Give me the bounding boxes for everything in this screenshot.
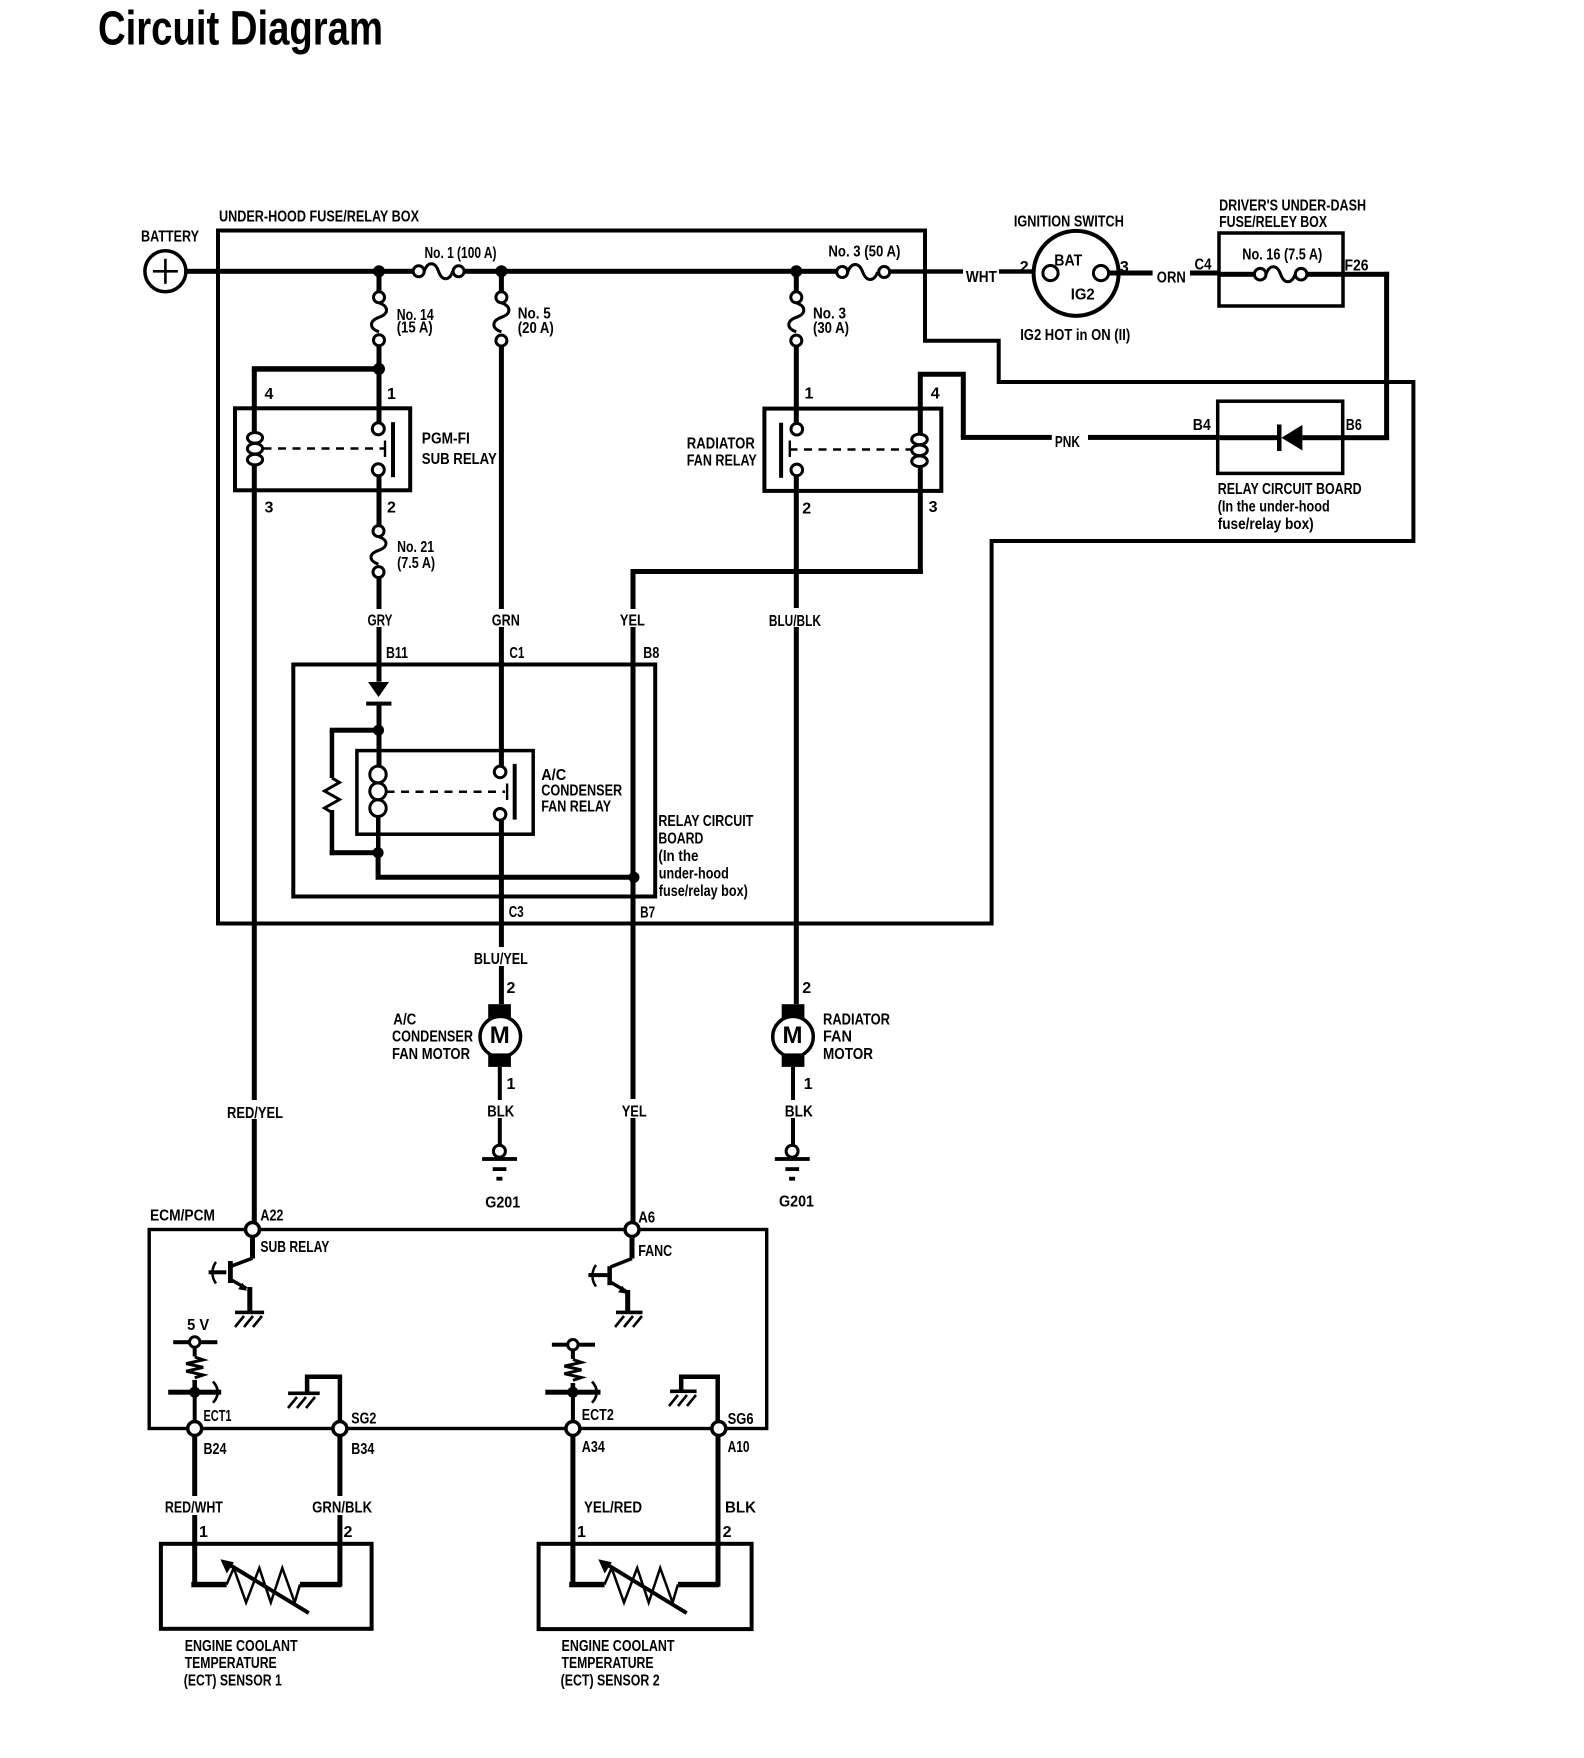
node junction dot bus/No.14 <box>373 265 385 277</box>
thermistor RT1 <box>191 1559 341 1613</box>
relay K1 contact blade <box>391 422 395 477</box>
wire RED/YEL PGM-FI pin 3 to A22 <box>252 490 257 1222</box>
ignition switch S1 <box>1034 231 1119 316</box>
svg-text:DRIVER'S UNDER-DASH: DRIVER'S UNDER-DASH <box>1219 198 1366 215</box>
wire fuse 16 to F26 <box>1307 272 1343 277</box>
wire ORN to C4 <box>1190 271 1220 276</box>
svg-text:2: 2 <box>802 500 811 517</box>
fuse No. 21 (7.5 A) <box>371 526 435 578</box>
svg-text:1: 1 <box>387 386 396 403</box>
svg-text:M: M <box>490 1022 510 1049</box>
relay K1 contact terminals <box>372 423 384 476</box>
svg-text:A/C: A/C <box>541 767 566 784</box>
svg-text:YEL: YEL <box>620 613 645 630</box>
svg-text:GRN/BLK: GRN/BLK <box>312 1500 373 1517</box>
wire label YEL lower <box>615 1099 649 1120</box>
battery B1 <box>141 229 200 292</box>
node junction dot bus/No.5 <box>495 265 507 277</box>
node junction dot pin1/pin4 <box>373 363 385 375</box>
under-hood fuse/relay box outline <box>218 231 1413 924</box>
fuse No. 16 (7.5 A) <box>1242 247 1322 282</box>
svg-text:G201: G201 <box>485 1194 520 1211</box>
wire B24 to ECT sensor 1 pin 1 <box>192 1436 197 1587</box>
motor M2 radiator fan motor <box>773 1004 814 1067</box>
svg-text:A10: A10 <box>728 1439 750 1456</box>
svg-text:YEL: YEL <box>622 1103 647 1120</box>
svg-text:ECT2: ECT2 <box>582 1407 614 1424</box>
svg-text:UNDER-HOOD FUSE/RELAY BOX: UNDER-HOOD FUSE/RELAY BOX <box>219 209 420 226</box>
ECT sensor 2 box <box>539 1544 752 1629</box>
svg-text:B4: B4 <box>1193 417 1211 434</box>
ECT1 comparator input bar <box>168 1382 221 1422</box>
svg-text:IG2 HOT in ON (II): IG2 HOT in ON (II) <box>1020 327 1130 344</box>
wire B8/YEL column through board <box>631 682 636 875</box>
svg-text:WHT: WHT <box>966 269 997 286</box>
node 5V supply ECT1 <box>173 1337 217 1347</box>
svg-text:B34: B34 <box>351 1441 374 1458</box>
svg-text:PGM-FI: PGM-FI <box>422 431 470 448</box>
ECT2 comparator input bar <box>545 1382 600 1422</box>
svg-text:G201: G201 <box>779 1194 814 1211</box>
svg-text:FAN RELAY: FAN RELAY <box>541 799 612 816</box>
wire WHT to ignition pin 2 <box>999 269 1043 273</box>
svg-text:A34: A34 <box>582 1439 605 1456</box>
diode D2 <box>1277 425 1343 452</box>
connector B24 <box>188 1422 202 1436</box>
resistor R3 pull-up ECT2 <box>564 1351 581 1391</box>
node 5V supply ECT2 <box>552 1340 595 1350</box>
svg-text:BLK: BLK <box>487 1103 515 1120</box>
relay K2 actuator dashed line <box>790 448 912 451</box>
svg-text:RED/WHT: RED/WHT <box>165 1500 223 1517</box>
node junction dot diode/resistor <box>373 725 384 736</box>
svg-text:2: 2 <box>507 980 516 997</box>
wire label BLK sensor 2 <box>721 1496 758 1517</box>
wire pin 1 drop PGM-FI contact <box>377 371 382 423</box>
svg-text:SUB RELAY: SUB RELAY <box>260 1239 330 1256</box>
wire battery bus segment 1 <box>186 269 413 274</box>
wire pin 4 drop PGM-FI coil <box>252 369 257 410</box>
wire YEL column down to board <box>631 572 636 683</box>
thermistor RT2 <box>569 1559 719 1613</box>
svg-text:ENGINE COOLANT: ENGINE COOLANT <box>562 1638 675 1655</box>
svg-text:BATTERY: BATTERY <box>141 229 200 246</box>
svg-text:ORN: ORN <box>1157 270 1186 287</box>
wire thick horizontal to coil pin 4 <box>252 366 382 372</box>
wire label BLK A/C <box>483 1100 520 1120</box>
svg-text:2: 2 <box>723 1524 732 1541</box>
relay K1 label <box>422 431 498 469</box>
wire B6 link <box>1343 435 1389 440</box>
wire GRN column fuse5 to relay contact <box>499 346 504 766</box>
svg-text:2: 2 <box>344 1524 353 1541</box>
svg-text:GRY: GRY <box>368 613 393 630</box>
driver's under-dash fuse/relay box <box>1219 233 1343 306</box>
wire BLU/YEL C3 to A/C motor <box>499 820 504 1004</box>
relay circuit board box (diode) <box>1218 401 1343 473</box>
ground G201 A/C motor <box>482 1145 520 1211</box>
svg-text:ECT1: ECT1 <box>204 1408 232 1425</box>
svg-text:C1: C1 <box>509 645 524 662</box>
diode D1 on GRY line <box>366 682 391 706</box>
svg-text:CONDENSER: CONDENSER <box>541 783 622 800</box>
wire into fuse 16 <box>1219 272 1254 277</box>
svg-text:2: 2 <box>802 980 811 997</box>
relay K2 label <box>687 435 758 469</box>
svg-text:A/C: A/C <box>393 1012 416 1029</box>
node junction dot bus/No.3 <box>790 265 802 277</box>
wire battery bus segment 2 <box>464 269 837 274</box>
svg-text:YEL/RED: YEL/RED <box>584 1500 642 1517</box>
wire label GRY <box>362 609 396 630</box>
svg-text:RADIATOR: RADIATOR <box>687 435 755 452</box>
relay K3 A/C condenser fan relay box <box>357 751 533 835</box>
connector A22 <box>246 1223 260 1237</box>
svg-text:B11: B11 <box>386 645 408 662</box>
relay K2 coil <box>912 409 928 491</box>
wire label RED/WHT <box>161 1496 227 1517</box>
ECT sensor 1 box <box>161 1544 372 1629</box>
relay K1 contact tick <box>384 441 386 458</box>
wire YEL horizontal link <box>631 569 923 574</box>
relay K1 coil <box>247 408 262 490</box>
wire coil return down-right to B8 line <box>378 853 634 878</box>
connector A10 <box>712 1422 726 1436</box>
node junction dot coil return <box>373 847 384 858</box>
relay K2 radiator fan relay box <box>764 409 941 491</box>
svg-text:SG2: SG2 <box>351 1411 376 1428</box>
svg-text:BLU/BLK: BLU/BLK <box>769 613 822 630</box>
svg-text:No. 16 (7.5 A): No. 16 (7.5 A) <box>1242 247 1322 264</box>
node junction dot B8 line <box>629 872 640 883</box>
svg-text:C4: C4 <box>1195 257 1212 274</box>
svg-text:(30 A): (30 A) <box>813 320 849 337</box>
svg-text:FUSE/RELEY BOX: FUSE/RELEY BOX <box>1219 214 1328 231</box>
svg-text:A6: A6 <box>638 1209 655 1226</box>
relay circuit board (diode) caption <box>1218 481 1362 533</box>
svg-text:(In the under-hood: (In the under-hood <box>1218 499 1330 516</box>
svg-text:5 V: 5 V <box>187 1317 210 1334</box>
fuse No. 3 (50 A) <box>828 244 900 280</box>
under-dash box label <box>1219 198 1366 232</box>
wire PNK segment right <box>1088 435 1220 440</box>
wire pin 4 radiator coil up-right-down to PNK <box>920 374 963 437</box>
wire label GRN <box>486 609 520 630</box>
wire label BLU/YEL <box>469 947 531 968</box>
svg-text:B6: B6 <box>1346 417 1362 434</box>
wire B4 into diode <box>1220 435 1278 440</box>
svg-text:BLK: BLK <box>785 1103 814 1120</box>
svg-text:4: 4 <box>265 386 274 403</box>
transistor Q2 FANC driver <box>588 1237 634 1312</box>
svg-text:1: 1 <box>804 1076 813 1093</box>
wire BLU/BLK radiator pin 2 down to motor <box>794 476 799 1005</box>
svg-text:1: 1 <box>199 1524 208 1541</box>
svg-text:4: 4 <box>931 386 940 403</box>
ground SG2 symbol <box>288 1377 340 1422</box>
ground chassis Q2 <box>615 1311 643 1327</box>
svg-text:under-hood: under-hood <box>659 866 729 883</box>
fuse No. 14 (15 A) <box>372 292 435 346</box>
wire PNK segment left <box>961 435 1052 440</box>
fuse No. 5 (20 A) <box>494 292 554 346</box>
svg-text:(20 A): (20 A) <box>518 320 554 337</box>
svg-text:C3: C3 <box>509 904 524 921</box>
svg-text:RADIATOR: RADIATOR <box>823 1012 890 1029</box>
svg-text:ECM/PCM: ECM/PCM <box>150 1207 215 1224</box>
svg-text:RELAY CIRCUIT BOARD: RELAY CIRCUIT BOARD <box>1218 481 1362 498</box>
svg-text:FAN: FAN <box>823 1029 852 1046</box>
svg-text:BLK: BLK <box>725 1500 757 1517</box>
wire No.14 to junction <box>377 346 382 369</box>
transistor Q1 sub relay driver <box>209 1237 255 1312</box>
wire A34 to ECT sensor 2 pin 1 <box>570 1436 575 1587</box>
connector A34 <box>566 1422 580 1436</box>
wire diode to coil junction <box>377 703 382 766</box>
fuse No. 1 (100 A) <box>413 245 496 279</box>
svg-text:ENGINE COOLANT: ENGINE COOLANT <box>185 1638 298 1655</box>
svg-text:IGNITION SWITCH: IGNITION SWITCH <box>1014 213 1124 230</box>
ground chassis Q1 <box>235 1311 264 1327</box>
svg-text:BAT: BAT <box>1054 253 1082 270</box>
wire label RED/YEL <box>223 1100 285 1122</box>
svg-text:BLU/YEL: BLU/YEL <box>474 951 528 968</box>
connector B34 <box>333 1422 347 1436</box>
relay K2 contact tick <box>789 441 791 458</box>
relay circuit board (A/C) caption <box>658 813 753 900</box>
connector A6 <box>625 1223 639 1237</box>
wire A10 to ECT sensor 2 pin 2 <box>716 1436 721 1587</box>
wire A/C motor to ground <box>498 1067 502 1145</box>
svg-text:(15 A): (15 A) <box>397 320 433 337</box>
ECT sensor 2 caption <box>561 1638 675 1690</box>
svg-text:B7: B7 <box>640 905 655 922</box>
svg-text:No. 3 (50 A): No. 3 (50 A) <box>828 244 900 261</box>
svg-text:(ECT) SENSOR 2: (ECT) SENSOR 2 <box>561 1673 660 1690</box>
svg-text:1: 1 <box>507 1076 516 1093</box>
svg-text:GRN: GRN <box>492 613 520 630</box>
svg-text:Circuit Diagram: Circuit Diagram <box>98 3 383 56</box>
svg-text:TEMPERATURE: TEMPERATURE <box>562 1655 654 1672</box>
motor M1 label <box>392 1012 473 1064</box>
ground G201 radiator motor <box>775 1145 815 1210</box>
wire pin 2 to fuse No.21 <box>377 476 382 526</box>
relay K3 coil <box>370 766 386 853</box>
svg-text:A22: A22 <box>260 1207 283 1224</box>
wire No.5 drop <box>499 271 504 292</box>
svg-text:2: 2 <box>387 500 396 517</box>
wire No.14 drop <box>377 271 382 292</box>
svg-text:MOTOR: MOTOR <box>823 1046 873 1063</box>
wire label BLU/BLK <box>764 608 824 630</box>
svg-text:fuse/relay box): fuse/relay box) <box>659 883 748 900</box>
ground SG6 symbol <box>669 1377 718 1422</box>
svg-text:FAN MOTOR: FAN MOTOR <box>392 1046 470 1063</box>
relay K1 actuator dashed line <box>264 447 386 450</box>
svg-text:(7.5 A): (7.5 A) <box>397 555 435 572</box>
relay K3 label <box>541 767 622 816</box>
svg-text:(In the: (In the <box>658 848 698 865</box>
svg-text:fuse/relay box): fuse/relay box) <box>1218 516 1314 533</box>
resistor R2 pull-up ECT1 <box>186 1349 203 1392</box>
wire F26 drop to B6 <box>1384 272 1389 440</box>
svg-text:FANC: FANC <box>638 1243 672 1260</box>
svg-text:RELAY CIRCUIT: RELAY CIRCUIT <box>658 813 753 830</box>
relay K2 contact terminals <box>791 423 803 475</box>
relay K3 actuator dashed line <box>387 790 506 793</box>
svg-text:2: 2 <box>1020 259 1029 276</box>
wire radiator motor to ground <box>791 1067 795 1145</box>
svg-text:RED/YEL: RED/YEL <box>227 1105 283 1122</box>
motor M2 label <box>823 1012 890 1064</box>
svg-text:TEMPERATURE: TEMPERATURE <box>185 1655 277 1672</box>
motor M1 A/C condenser fan motor <box>480 1004 521 1067</box>
svg-text:CONDENSER: CONDENSER <box>392 1029 473 1046</box>
svg-text:(ECT) SENSOR 1: (ECT) SENSOR 1 <box>184 1673 282 1690</box>
svg-text:1: 1 <box>805 386 814 403</box>
svg-text:B24: B24 <box>204 1441 227 1458</box>
svg-text:3: 3 <box>265 500 274 517</box>
relay K3 contact blade <box>513 764 517 820</box>
wire YEL column board to A6 <box>631 880 636 1223</box>
wire GRY column fuse21 to board <box>377 578 382 682</box>
svg-text:1: 1 <box>577 1524 586 1541</box>
svg-text:3: 3 <box>929 499 938 516</box>
svg-text:M: M <box>783 1022 803 1049</box>
relay K1 PGM-FI sub relay box <box>235 408 410 490</box>
wire bus segment 3 to WHT <box>890 269 963 273</box>
svg-text:SG6: SG6 <box>728 1411 754 1428</box>
svg-text:PNK: PNK <box>1055 434 1081 451</box>
wire No.3-30A to radiator relay pin 1 <box>794 346 799 423</box>
wire ignition pin 3 to ORN <box>1109 271 1153 276</box>
wire label YEL <box>615 609 648 630</box>
wire label BLK radiator <box>780 1100 817 1120</box>
wire No.3-30A drop <box>794 271 799 292</box>
svg-text:SUB RELAY: SUB RELAY <box>422 451 498 468</box>
ECT sensor 1 caption <box>184 1638 298 1690</box>
relay K3 contact tick <box>506 784 508 801</box>
fuse No. 3 (30 A) <box>789 292 849 346</box>
relay K2 contact blade <box>779 423 783 478</box>
wire pin 3 radiator coil down <box>918 491 923 574</box>
relay K3 contact terminals <box>494 766 506 820</box>
svg-text:B8: B8 <box>643 645 659 662</box>
wire B34 to ECT sensor 1 pin 2 <box>337 1436 342 1587</box>
svg-text:No. 21: No. 21 <box>397 539 434 556</box>
wire label YEL/RED <box>580 1496 646 1517</box>
svg-text:BOARD: BOARD <box>658 831 703 848</box>
relay circuit board box (A/C) <box>293 665 655 897</box>
ECM/PCM box <box>149 1230 767 1429</box>
svg-text:IG2: IG2 <box>1071 287 1095 304</box>
svg-text:No. 1 (100 A): No. 1 (100 A) <box>425 245 497 262</box>
svg-text:FAN RELAY: FAN RELAY <box>687 453 758 470</box>
svg-text:F26: F26 <box>1345 257 1369 274</box>
resistor R1 branch <box>325 728 380 856</box>
wire F26 right <box>1343 272 1389 277</box>
wire label GRN/BLK <box>308 1496 374 1517</box>
